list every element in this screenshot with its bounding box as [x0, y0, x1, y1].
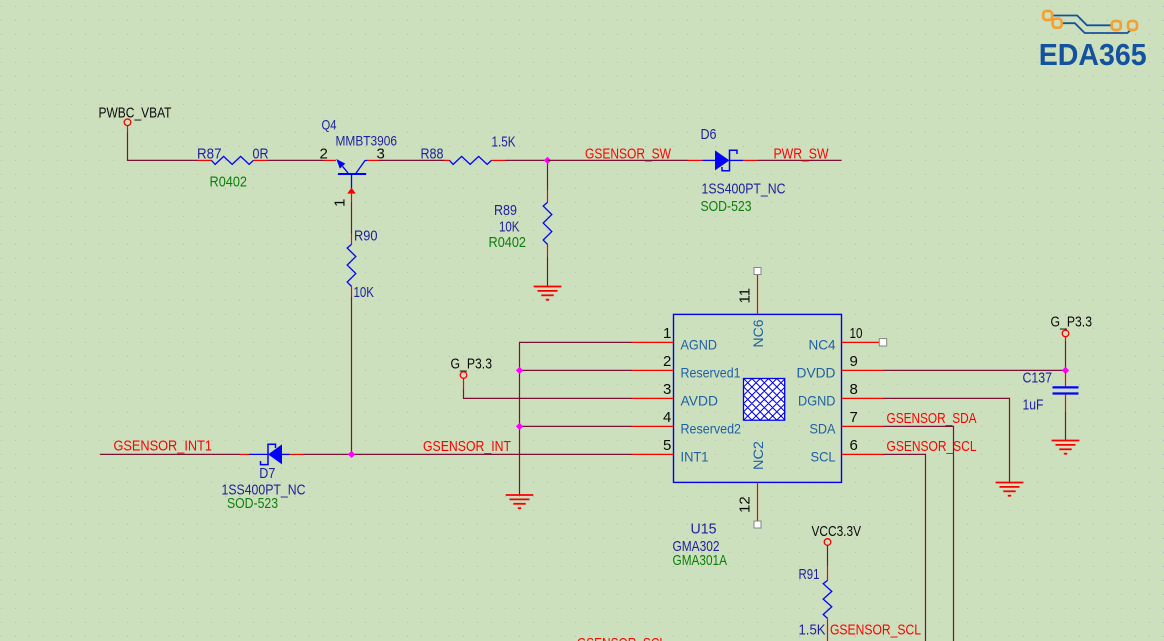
- svg-text:Q4: Q4: [322, 117, 337, 133]
- power port G_P3.3 (DVDD): [1051, 314, 1093, 342]
- svg-text:12: 12: [737, 496, 754, 513]
- junction R90 / GSENSOR_INT: [348, 451, 355, 458]
- pin 12 NC2: [737, 441, 767, 528]
- pin 9 DVDD: [797, 353, 884, 380]
- svg-text:1: 1: [332, 199, 349, 207]
- wire D7 to INT1 pin: [304, 453, 632, 455]
- wire DVDD to C137: [884, 369, 1066, 371]
- ground of pin bus: [506, 494, 534, 496]
- pin 11 NC6: [737, 268, 767, 348]
- svg-text:AVDD: AVDD: [681, 392, 719, 408]
- svg-text:1.5K: 1.5K: [799, 622, 826, 639]
- svg-text:GSENSOR_SDA: GSENSOR_SDA: [887, 410, 977, 427]
- svg-text:DGND: DGND: [798, 392, 836, 408]
- power port VCC3.3V: [812, 523, 862, 545]
- pin 10 no-connect terminal: [879, 339, 886, 346]
- wire G_P3.3 down to junction: [1065, 341, 1067, 370]
- svg-text:5: 5: [663, 437, 671, 454]
- diode D7 1SS400PT_NC SOD-523: [222, 444, 306, 512]
- svg-text:D6: D6: [701, 126, 717, 143]
- svg-text:11: 11: [737, 288, 754, 304]
- wire DGND to ground: [884, 398, 1010, 482]
- svg-text:4: 4: [663, 409, 671, 426]
- capacitor C137 1uF: [1023, 370, 1079, 414]
- svg-text:SOD-523: SOD-523: [227, 495, 278, 512]
- wire R88 to junction: [506, 159, 548, 161]
- svg-text:SOD-523: SOD-523: [701, 198, 752, 215]
- svg-text:1uF: 1uF: [1023, 397, 1044, 414]
- svg-text:G_P3.3: G_P3.3: [1051, 314, 1093, 331]
- pin 10 NC4: [809, 325, 884, 352]
- svg-text:GSENSOR_SCL: GSENSOR_SCL: [830, 622, 921, 639]
- svg-text:GSENSOR_SCL: GSENSOR_SCL: [887, 438, 977, 455]
- svg-text:SCL: SCL: [811, 448, 836, 464]
- wire Q4 emitter to R90: [351, 203, 353, 235]
- svg-text:2: 2: [663, 353, 671, 370]
- pin 6 SCL: [811, 437, 884, 464]
- ground of DGND: [996, 482, 1024, 484]
- IC hatch square: [702, 374, 873, 424]
- svg-text:GSENSOR_INT: GSENSOR_INT: [423, 438, 511, 455]
- wire AGND bus vertical: [520, 342, 632, 495]
- svg-text:Reserved1: Reserved1: [681, 364, 741, 380]
- svg-text:NC4: NC4: [809, 336, 836, 352]
- svg-text:GSENSOR_INT1: GSENSOR_INT1: [114, 438, 213, 455]
- svg-text:VCC3.3V: VCC3.3V: [812, 523, 862, 540]
- svg-text:PWR_SW: PWR_SW: [774, 146, 830, 163]
- svg-text:SDA: SDA: [810, 420, 837, 436]
- pin 7 SDA: [810, 409, 884, 436]
- svg-text:10K: 10K: [354, 284, 375, 301]
- pin 1 AGND: [632, 325, 718, 352]
- svg-text:AGND: AGND: [681, 336, 718, 352]
- resistor R89 10K R0402: [489, 190, 552, 256]
- resistor R90 10K: [347, 228, 377, 302]
- svg-text:G_P3.3: G_P3.3: [451, 356, 493, 373]
- svg-text:MMBT3906: MMBT3906: [336, 133, 398, 149]
- svg-text:R90: R90: [354, 228, 378, 245]
- svg-text:R0402: R0402: [489, 234, 527, 251]
- svg-text:6: 6: [850, 437, 858, 454]
- pin 4 Reserved2: [632, 409, 742, 436]
- svg-text:D7: D7: [259, 465, 275, 482]
- svg-text:NC2: NC2: [750, 441, 766, 470]
- svg-text:U15: U15: [691, 521, 717, 538]
- resistor R91 1.5K: [799, 545, 832, 641]
- junction bus Reserved2: [516, 423, 523, 430]
- svg-text:8: 8: [850, 381, 858, 398]
- svg-text:PWBC_VBAT: PWBC_VBAT: [99, 105, 172, 122]
- svg-text:1SS400PT_NC: 1SS400PT_NC: [702, 181, 786, 198]
- diode D6 1SS400PT_NC SOD-523: [688, 126, 786, 215]
- wire junction down to R89: [547, 160, 549, 190]
- pin 3 AVDD: [632, 381, 719, 408]
- svg-text:7: 7: [850, 409, 858, 426]
- svg-text:GSENSOR_SCL: GSENSOR_SCL: [577, 635, 666, 641]
- wire Q4 collector to R88: [379, 159, 444, 161]
- wire bus to Reserved1: [520, 369, 632, 371]
- logo EDA365: [1039, 11, 1147, 72]
- svg-text:C137: C137: [1023, 370, 1053, 387]
- wire bus to Reserved2: [520, 425, 632, 427]
- wire R87 to Q4 base: [268, 159, 324, 161]
- pin 5 INT1: [632, 437, 709, 464]
- junction DVDD / C137: [1062, 367, 1069, 374]
- wire G_P3.3 to AVDD pin: [464, 389, 632, 398]
- wire SCL: [884, 454, 926, 641]
- pin 8 DGND: [798, 381, 884, 408]
- svg-text:INT1: INT1: [681, 448, 709, 464]
- svg-text:R0402: R0402: [210, 174, 248, 191]
- junction bus Reserved1: [516, 367, 523, 374]
- wire D6 to PWR_SW: [758, 159, 842, 161]
- power port PWBC_VBAT: [99, 105, 172, 133]
- svg-text:10: 10: [850, 325, 863, 342]
- resistor R88 1.5K: [421, 134, 516, 165]
- resistor R87 0R R0402: [197, 146, 269, 191]
- junction GSENSOR_SW: [544, 157, 551, 164]
- ground of C137: [1052, 440, 1080, 442]
- svg-text:Reserved2: Reserved2: [681, 420, 742, 436]
- svg-text:R88: R88: [421, 146, 444, 163]
- svg-text:3: 3: [663, 381, 671, 398]
- wire R90 to GSENSOR_INT: [351, 296, 353, 454]
- svg-text:NC6: NC6: [750, 319, 766, 347]
- wire SDA: [884, 426, 954, 641]
- transistor Q4 MMBT3906: [320, 117, 398, 208]
- pin 2 Reserved1: [632, 353, 741, 380]
- svg-text:GMA301A: GMA301A: [673, 552, 728, 569]
- IC U15 GMA302 body: [674, 314, 842, 482]
- wire PWBC_VBAT to R87: [128, 133, 198, 161]
- svg-text:1: 1: [663, 325, 671, 342]
- wire GSENSOR_INT1 to D7: [100, 453, 240, 455]
- svg-text:R89: R89: [494, 202, 517, 219]
- svg-text:10K: 10K: [499, 219, 520, 236]
- wire C137 to ground: [1065, 412, 1067, 441]
- wire R89 to ground: [547, 256, 549, 286]
- ground of R89: [534, 286, 562, 288]
- svg-text:R91: R91: [799, 566, 820, 583]
- svg-text:EDA365: EDA365: [1039, 38, 1147, 72]
- svg-text:9: 9: [850, 353, 858, 370]
- power port G_P3.3 (AVDD): [451, 356, 493, 390]
- svg-text:1.5K: 1.5K: [492, 134, 516, 151]
- svg-text:DVDD: DVDD: [797, 364, 836, 380]
- wire junction to D6: [548, 159, 689, 161]
